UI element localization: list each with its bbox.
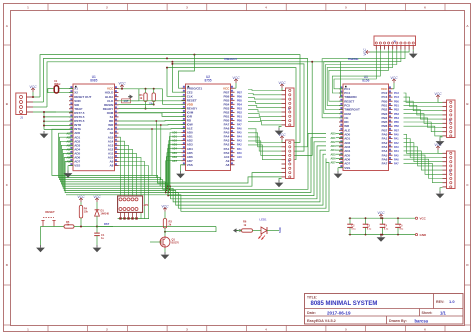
svg-text:AD3: AD3 [66, 145, 72, 148]
node TIMERIN label [348, 58, 358, 61]
crystal X1 4MHz [48, 79, 73, 93]
svg-text:PA7: PA7 [382, 162, 388, 166]
svg-text:PA5: PA5 [237, 132, 242, 135]
wire U3 to J5 [404, 93, 443, 136]
power flag VCC caps [377, 211, 385, 219]
svg-text:AD6: AD6 [66, 157, 72, 160]
capacitor C5 [395, 217, 404, 235]
svg-text:AD3: AD3 [172, 144, 178, 147]
svg-text:AD0: AD0 [330, 133, 336, 136]
wire drop to U2 PROG [179, 55, 195, 89]
svg-text:TIMEROUT: TIMEROUT [224, 58, 238, 61]
svg-text:0.1u: 0.1u [384, 229, 389, 231]
svg-text:Drawn By:: Drawn By: [389, 319, 407, 323]
power flag VCC R4 [77, 195, 85, 202]
wire control drop verticals [151, 120, 162, 180]
resistor R5 [64, 220, 113, 228]
resistor R4 [79, 202, 88, 228]
svg-text:XST: XST [124, 100, 129, 103]
svg-text:AD6: AD6 [172, 156, 178, 159]
resistor R1 [140, 89, 148, 110]
svg-text:PB5: PB5 [237, 99, 242, 102]
svg-text:8085 MINIMAL SYSTEM: 8085 MINIMAL SYSTEM [311, 301, 378, 307]
wire J6 to U3 [322, 50, 405, 118]
svg-text:VSS: VSS [74, 164, 80, 168]
svg-text:EasyEDA V4.5.2: EasyEDA V4.5.2 [307, 319, 336, 323]
svg-text:AD7: AD7 [172, 160, 178, 163]
svg-text:SOD: SOD [278, 227, 282, 233]
ground J8 [275, 127, 284, 136]
power flag VCC J5 [434, 92, 442, 103]
svg-text:PB6: PB6 [394, 125, 399, 128]
node AD labels U3 [330, 133, 343, 165]
svg-text:PA4: PA4 [237, 136, 242, 139]
svg-text:1N4148: 1N4148 [101, 213, 110, 216]
svg-text:VSS: VSS [344, 166, 350, 170]
node GND port [415, 233, 427, 237]
wire A8-A15 drops [119, 137, 149, 218]
svg-text:8085: 8085 [90, 78, 97, 82]
svg-text:PB7: PB7 [237, 91, 242, 94]
ground C1 [93, 245, 102, 252]
wire interrupt tie column [43, 111, 73, 130]
ground J4 [436, 188, 445, 199]
resistor R3 [163, 212, 172, 237]
wire U2 AD pickup [165, 132, 182, 197]
svg-text:0.1u: 0.1u [367, 229, 372, 231]
ground J6 [409, 50, 418, 59]
svg-text:PA3: PA3 [394, 146, 399, 149]
svg-text:PA1: PA1 [237, 148, 242, 151]
connector J5 [443, 100, 456, 138]
svg-text:1.0: 1.0 [449, 299, 455, 304]
resistor R6 [237, 220, 262, 233]
svg-text:AD2: AD2 [172, 140, 178, 143]
svg-text:TIMERIN: TIMERIN [348, 58, 358, 61]
svg-text:PA2: PA2 [237, 144, 242, 147]
svg-text:VCC: VCC [420, 217, 427, 221]
svg-text:GND: GND [420, 233, 428, 237]
svg-text:PB6: PB6 [237, 95, 242, 98]
svg-text:PB1: PB1 [237, 116, 242, 119]
wire VCC rail branches [131, 89, 186, 105]
svg-text:AD0: AD0 [66, 132, 72, 135]
svg-text:RST: RST [104, 222, 110, 226]
svg-text:barcsa: barcsa [415, 318, 429, 323]
svg-text:PB1: PB1 [394, 105, 399, 108]
node XTAL label box [122, 99, 131, 103]
svg-text:PA7: PA7 [237, 124, 242, 127]
svg-text:AD2: AD2 [330, 141, 336, 144]
svg-text:PA6: PA6 [237, 128, 242, 131]
ground reset switch [36, 245, 45, 252]
junction dots top bundle [166, 54, 195, 63]
wire AD bus [52, 129, 329, 211]
svg-text:PB3: PB3 [394, 113, 399, 116]
ground U3 VSS [334, 168, 343, 179]
node TIMEROUT label [224, 58, 238, 61]
svg-text:2017-06-19: 2017-06-19 [327, 310, 351, 315]
svg-text:AD2: AD2 [66, 140, 72, 143]
svg-text:PA6: PA6 [394, 159, 399, 162]
wire J6 pin9 [370, 50, 409, 53]
IC U2 8755 [182, 75, 235, 171]
capacitor C1 [94, 227, 105, 246]
svg-text:PB7: PB7 [394, 129, 399, 132]
title block [305, 294, 464, 325]
capacitor C3 [363, 217, 372, 235]
svg-text:Sheet:: Sheet: [422, 311, 433, 315]
connector J4 [443, 151, 456, 189]
wire bus top line 5 [166, 67, 296, 160]
svg-text:J1: J1 [20, 116, 24, 120]
svg-text:10u: 10u [399, 229, 403, 231]
power flag VCC D1 [93, 195, 101, 202]
svg-text:PA0: PA0 [237, 152, 242, 155]
switch S1 reset [41, 218, 65, 245]
resistor R2 [149, 89, 156, 106]
power flag VCC J8 [278, 81, 286, 91]
node RESET label [45, 210, 55, 214]
wire bus top line 4 [171, 63, 304, 151]
svg-text:REV:: REV: [436, 300, 444, 304]
svg-text:LED1: LED1 [259, 217, 267, 221]
node U3 right labels [394, 92, 399, 166]
svg-text:VSS: VSS [187, 163, 193, 167]
svg-text:PA5: PA5 [394, 154, 399, 157]
ground caps [377, 234, 386, 242]
diode D1 1N4148 [95, 202, 216, 233]
power flag VCC J6 [363, 48, 370, 56]
svg-text:RESET: RESET [45, 210, 55, 214]
svg-text:AD1: AD1 [66, 136, 72, 139]
capacitor C2 [347, 217, 356, 235]
node U2 right labels [237, 91, 242, 159]
svg-text:PA4: PA4 [394, 150, 399, 153]
svg-text:PB2: PB2 [237, 112, 242, 115]
svg-text:10k: 10k [149, 103, 154, 106]
wire bus top line 3 [47, 62, 343, 107]
svg-text:PB0: PB0 [237, 120, 242, 123]
svg-text:AD5: AD5 [66, 153, 72, 156]
svg-text:PA2: PA2 [394, 142, 399, 145]
svg-text:PA1: PA1 [394, 138, 399, 141]
svg-text:JP1: JP1 [144, 203, 149, 207]
net port CLK arrow [128, 95, 133, 99]
svg-text:0.1u: 0.1u [351, 229, 356, 231]
svg-text:AD4: AD4 [66, 149, 72, 152]
node VCC port [415, 217, 426, 221]
power flag VCC U3 [390, 76, 398, 89]
svg-text:PB2: PB2 [394, 109, 399, 112]
wire J1 stubs [33, 97, 56, 112]
svg-text:AD6: AD6 [330, 158, 336, 161]
wire bus top line 3 branch [284, 61, 313, 156]
power flag VCC J2 [278, 133, 286, 143]
power flag VCC J1 [29, 85, 37, 98]
svg-text:AD4: AD4 [172, 148, 178, 151]
svg-text:PB0: PB0 [394, 100, 399, 103]
wire cap rails [349, 218, 416, 234]
connector J8 [282, 88, 295, 127]
svg-text:TITLE:: TITLE: [307, 295, 317, 299]
ground U1 VSS [64, 166, 73, 178]
svg-text:PB3: PB3 [237, 108, 242, 111]
connector JP1 [118, 196, 149, 220]
svg-text:AD0: AD0 [172, 132, 178, 135]
svg-text:AD5: AD5 [330, 153, 336, 156]
ground U2 VSS [176, 165, 185, 178]
power flag VCC J4 [434, 143, 442, 154]
connector J2 [282, 140, 295, 179]
svg-text:BS170: BS170 [172, 242, 180, 245]
svg-text:A8: A8 [225, 163, 229, 167]
svg-text:8755: 8755 [204, 78, 211, 82]
svg-text:PA7: PA7 [394, 163, 399, 166]
ground left tie [40, 131, 49, 138]
power flag VCC U1 [118, 82, 162, 90]
svg-text:AD7: AD7 [66, 161, 72, 164]
wire bus top line 2 [44, 58, 308, 146]
diode LED1 [258, 217, 279, 240]
svg-text:AD7: AD7 [330, 162, 336, 165]
svg-text:AD4: AD4 [330, 149, 336, 152]
svg-text:PB4: PB4 [237, 103, 242, 106]
svg-text:15k: 15k [84, 211, 89, 214]
power flag VCC U2 [232, 76, 240, 88]
svg-text:AD1: AD1 [330, 137, 336, 140]
capacitor C4 [380, 217, 389, 235]
wire U2 to J2 [248, 129, 282, 160]
svg-text:PA0: PA0 [394, 134, 399, 137]
IC U3 8156 [339, 75, 393, 171]
ground J5 [436, 137, 445, 146]
svg-text:A8: A8 [109, 164, 113, 168]
svg-text:PC3: PC3 [394, 96, 399, 99]
transistor Q1 BS170 [150, 236, 179, 252]
svg-text:PC2: PC2 [394, 92, 399, 95]
wire U3 to J4 [404, 134, 443, 182]
svg-text:PA3: PA3 [237, 140, 242, 143]
net port SID arrow [233, 228, 241, 232]
svg-text:1/1: 1/1 [440, 310, 446, 315]
node SOD label [278, 227, 282, 233]
svg-text:PB4: PB4 [394, 117, 399, 120]
node AD labels U1 [66, 132, 72, 163]
IC U1 8085 CPU [69, 75, 119, 171]
svg-text:PB5: PB5 [394, 121, 399, 124]
svg-text:Date:: Date: [307, 311, 316, 315]
connector J6 [374, 36, 416, 50]
connector J1 [16, 93, 33, 120]
svg-text:AD1: AD1 [172, 136, 178, 139]
svg-text:AD5: AD5 [172, 152, 178, 155]
svg-text:A10: A10 [237, 156, 242, 159]
node RST label [104, 222, 110, 226]
ground J2 [275, 179, 284, 188]
wire U2 to J8 [248, 90, 282, 125]
ground Q1 [161, 252, 170, 259]
power flag VCC R3 [161, 204, 169, 211]
svg-text:AD3: AD3 [330, 145, 336, 148]
wire bus top line 1 [40, 55, 300, 143]
wire U1-U2 control bus [119, 101, 186, 129]
